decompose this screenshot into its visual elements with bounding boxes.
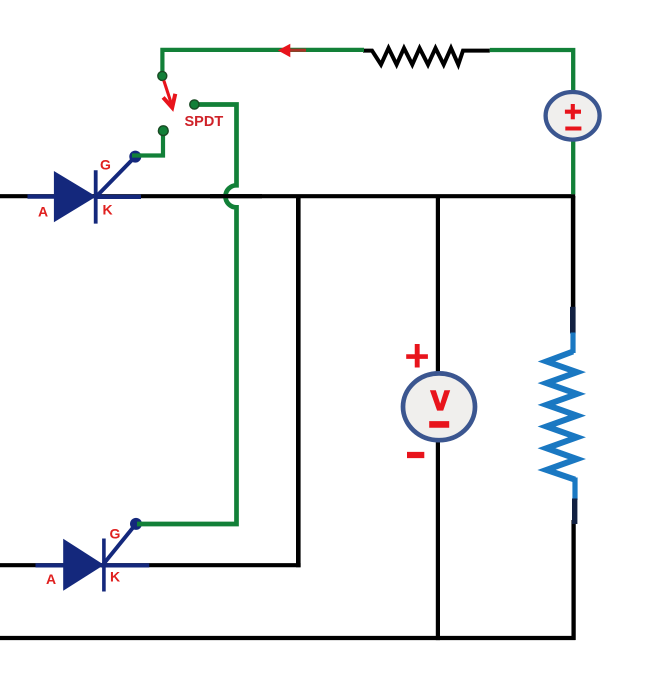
source V1 minus — [565, 126, 581, 130]
SCR Q2 anode lead — [36, 563, 66, 567]
SCR Q2 gate dot — [130, 518, 142, 530]
SCR Q1 gate dot — [129, 151, 141, 163]
source V1 plus — [565, 110, 581, 114]
resistor R2 top lead (navy) — [570, 307, 576, 334]
wire main horizontal bus — [0, 194, 575, 198]
wire main bus overlay at hop crossing — [210, 194, 262, 198]
wire vertical voltmeter branch V2 — [436, 196, 440, 640]
resistor R2 top blue lead — [570, 333, 575, 354]
wire green source to junction — [571, 138, 575, 194]
wire green top-right to source — [490, 50, 573, 93]
svg-text:SPDT: SPDT — [185, 114, 224, 130]
svg-text:K: K — [110, 569, 120, 585]
SCR Q1 cathode bar — [94, 170, 98, 223]
voltmeter M1 plus label — [406, 354, 428, 359]
resistor R2 bottom blue lead — [572, 478, 577, 501]
current direction arrow (red, on top wire) — [286, 49, 306, 52]
wire green SPDT throw2 to SCR1 gate — [132, 131, 163, 156]
SCR Q2 cathode bar — [102, 539, 106, 592]
SPDT actuator arrow (red) — [164, 81, 172, 104]
svg-text:A: A — [46, 571, 56, 587]
node SPDT throw2 dot — [158, 126, 168, 136]
wire bottom bus — [0, 636, 575, 640]
SCR Q1 gate line — [97, 157, 136, 196]
wire vertical branch V1 — [296, 196, 301, 567]
resistor R2 bottom lead (navy) — [572, 499, 577, 525]
wire green SPDT throw1 to SCR2 gate (with hop) — [137, 105, 237, 525]
SCR Q1 anode lead — [28, 194, 57, 198]
voltmeter M1 inner minus — [429, 421, 449, 428]
svg-text:K: K — [102, 201, 112, 217]
node SPDT pole dot — [158, 71, 167, 80]
SCR Q2 cathode lead — [101, 563, 149, 567]
svg-text:G: G — [110, 526, 121, 542]
wire right vertical upper — [571, 196, 576, 308]
SCR Q1 triangle — [54, 171, 96, 222]
wire green top-left loop — [162, 50, 364, 76]
SCR Q1 cathode lead — [96, 195, 141, 199]
source V1 circle — [546, 92, 600, 140]
node SPDT throw1 dot — [190, 100, 199, 109]
voltmeter M1 V letter — [430, 390, 450, 410]
SCR Q2 gate line — [104, 524, 137, 564]
wire SCR2 horizontal — [0, 563, 301, 567]
voltmeter M1 circle — [403, 373, 475, 440]
svg-text:A: A — [38, 203, 48, 219]
voltmeter M1 minus label — [407, 452, 424, 458]
resistor R2 blue zigzag — [547, 352, 578, 480]
wire right vertical lower — [571, 520, 575, 640]
resistor R1 (top, black zigzag) — [363, 48, 490, 65]
SCR Q2 triangle — [63, 539, 104, 591]
svg-text:G: G — [100, 157, 111, 173]
